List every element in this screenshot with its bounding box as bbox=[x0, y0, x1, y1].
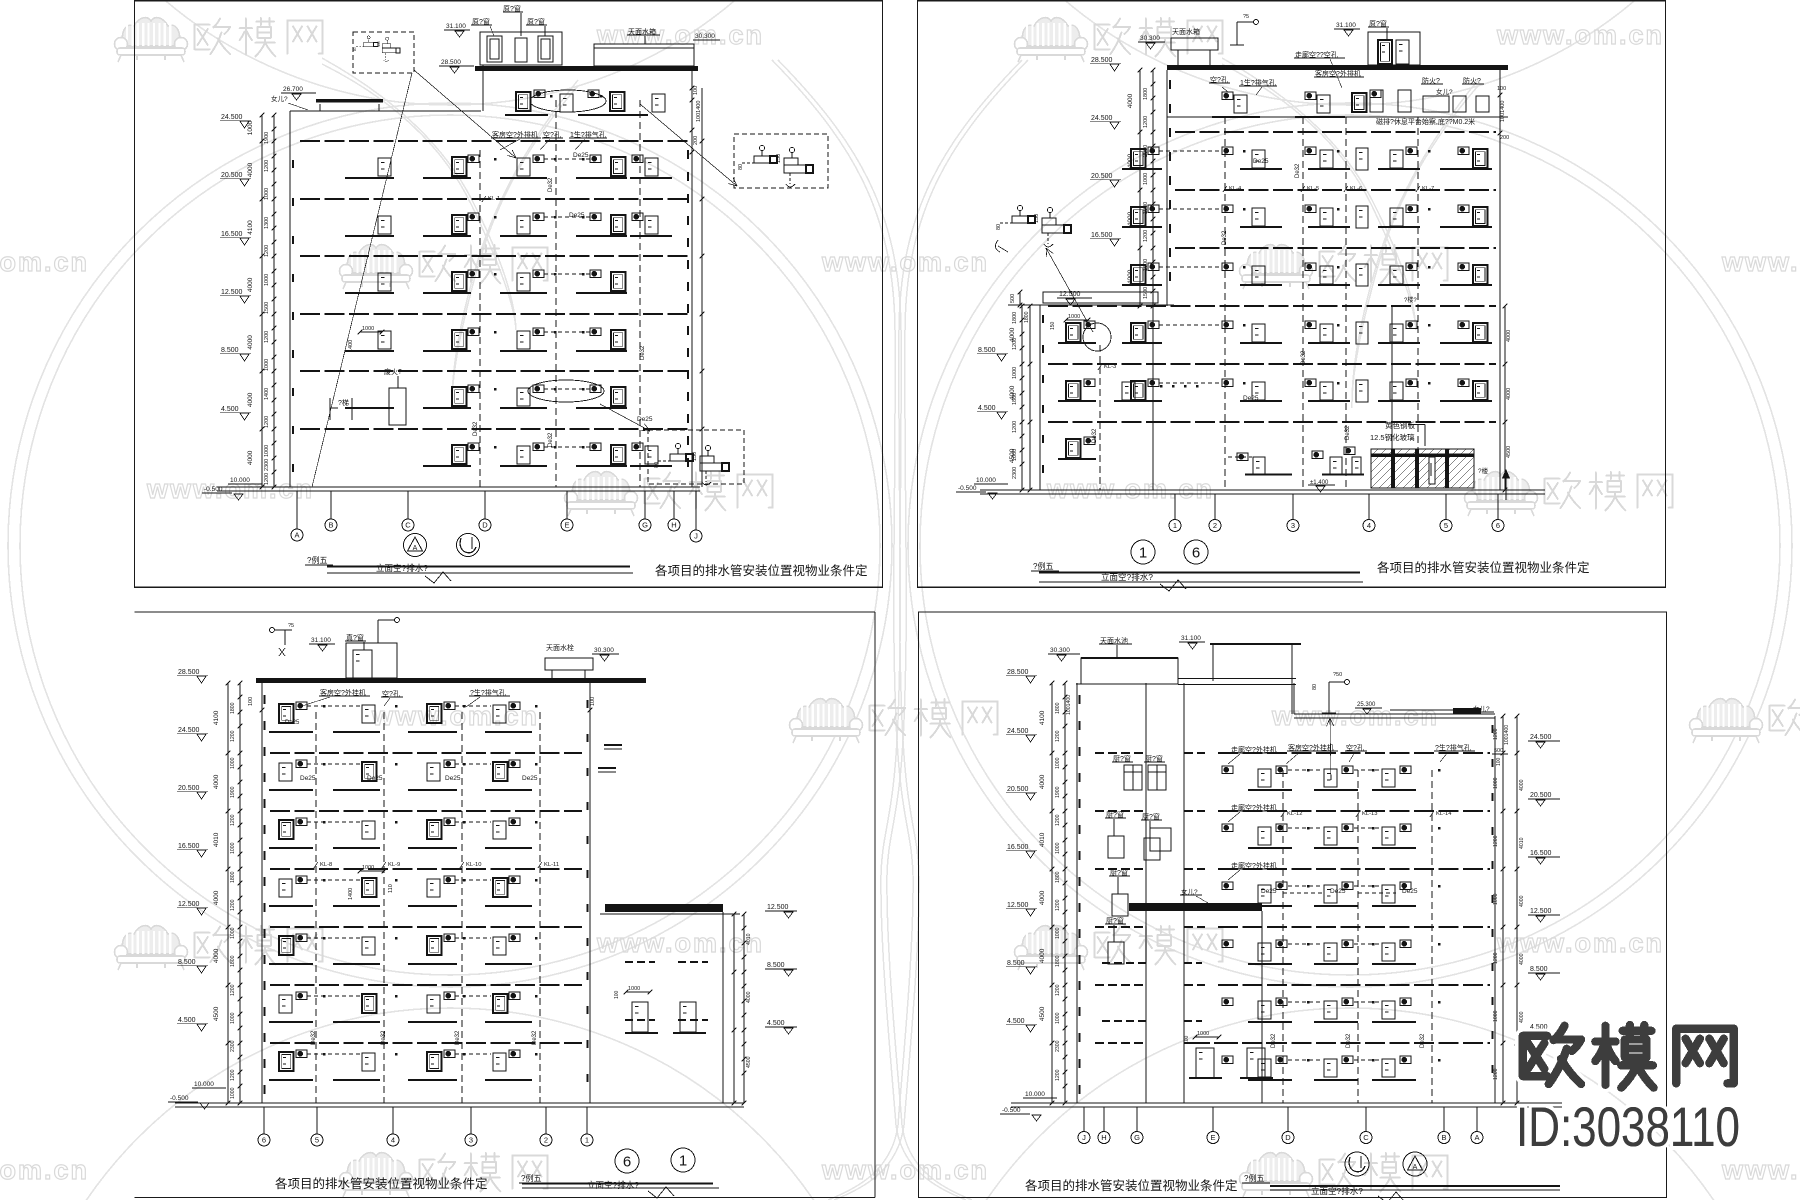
svg-text:B: B bbox=[328, 521, 333, 530]
svg-text:4000: 4000 bbox=[247, 450, 254, 465]
panel 4 unit row 1 bbox=[1248, 789, 1292, 791]
svg-text:6: 6 bbox=[1496, 521, 1500, 530]
svg-text:1800: 1800 bbox=[230, 871, 236, 883]
svg-text:4.500: 4.500 bbox=[178, 1017, 196, 1024]
svg-text:30.300: 30.300 bbox=[695, 33, 715, 40]
panel 2 grid bubbles bbox=[1174, 494, 1176, 520]
svg-text:1200: 1200 bbox=[1493, 952, 1499, 964]
panel 2 water tank bbox=[1171, 38, 1218, 50]
svg-text:8.500: 8.500 bbox=[178, 959, 196, 966]
svg-text:4000: 4000 bbox=[213, 948, 220, 963]
svg-text:De32: De32 bbox=[1301, 350, 1307, 365]
svg-text:1200: 1200 bbox=[264, 473, 270, 485]
panel 1 floor line 2 bbox=[300, 198, 688, 200]
svg-text:16.500: 16.500 bbox=[1530, 850, 1552, 857]
svg-text:12.500: 12.500 bbox=[178, 901, 200, 908]
svg-text:1800: 1800 bbox=[230, 955, 236, 967]
svg-text:De25: De25 bbox=[522, 775, 538, 782]
svg-text:www.om.cn: www.om.cn bbox=[1271, 701, 1439, 731]
svg-text:1000: 1000 bbox=[1055, 757, 1061, 769]
svg-text:100: 100 bbox=[1184, 1035, 1190, 1044]
svg-text:KL-5: KL-5 bbox=[1307, 186, 1319, 192]
panel 4 unit row 2 bbox=[1248, 847, 1292, 849]
panel 3 roof slab bbox=[256, 678, 646, 683]
svg-text:KL-6: KL-6 bbox=[1350, 186, 1362, 192]
svg-text:1000: 1000 bbox=[1068, 314, 1080, 320]
svg-text:1200: 1200 bbox=[230, 984, 236, 996]
panel 3 border bbox=[135, 611, 875, 613]
svg-text:4500: 4500 bbox=[746, 1056, 752, 1068]
svg-text:?例五: ?例五 bbox=[1244, 1173, 1264, 1183]
svg-text:150: 150 bbox=[1034, 214, 1040, 223]
panel 4 unit row 5 bbox=[1248, 1021, 1292, 1023]
panel 3 floor line 1 bbox=[270, 752, 582, 754]
watermark top partial circles bbox=[10, 0, 890, 105]
svg-text:De25: De25 bbox=[1261, 888, 1277, 895]
svg-text:1200: 1200 bbox=[1055, 730, 1061, 742]
svg-text:www.om.cn: www.om.cn bbox=[0, 247, 89, 277]
svg-text:4000: 4000 bbox=[247, 392, 254, 407]
svg-text:1: 1 bbox=[1139, 545, 1147, 562]
svg-text:1900: 1900 bbox=[264, 132, 270, 144]
svg-text:100: 100 bbox=[590, 697, 596, 706]
svg-text:6: 6 bbox=[623, 1154, 631, 1171]
svg-text:De32: De32 bbox=[548, 432, 554, 447]
svg-text:24.500: 24.500 bbox=[1530, 734, 1552, 741]
panel 2 roof objects row bbox=[1370, 90, 1383, 112]
svg-text:立面空?排水?: 立面空?排水? bbox=[376, 563, 428, 573]
panel 4 parapet vent pipe bbox=[1328, 682, 1330, 713]
svg-text:6: 6 bbox=[262, 1136, 266, 1145]
svg-text:1200: 1200 bbox=[264, 245, 270, 257]
svg-text:A: A bbox=[413, 545, 418, 552]
svg-text:1000: 1000 bbox=[230, 757, 236, 769]
svg-text:1: 1 bbox=[679, 1153, 687, 1170]
svg-text:4000: 4000 bbox=[1519, 779, 1525, 791]
svg-text:1000: 1000 bbox=[628, 986, 640, 992]
svg-text:D: D bbox=[1285, 1133, 1291, 1142]
svg-text:1000: 1000 bbox=[230, 927, 236, 939]
svg-text:1800: 1800 bbox=[1055, 955, 1061, 967]
panel 2 unit row 5 bbox=[1122, 400, 1162, 402]
svg-text:A: A bbox=[1413, 1164, 1418, 1171]
panel 2 floor line 2 bbox=[1175, 189, 1496, 191]
svg-text:De25: De25 bbox=[1402, 888, 1418, 895]
svg-text:De32: De32 bbox=[1346, 1033, 1352, 1048]
svg-text:?50: ?50 bbox=[1333, 672, 1342, 678]
watermark center vertical ribbon curves bbox=[772, 60, 913, 1200]
svg-text:1000: 1000 bbox=[362, 865, 374, 871]
svg-text:De25: De25 bbox=[300, 775, 316, 782]
svg-text:De25: De25 bbox=[1243, 395, 1259, 402]
panel 4 KL labels and pipes bbox=[1282, 770, 1284, 1103]
panel 4 left tower water tank bbox=[1081, 658, 1178, 684]
svg-text:1400: 1400 bbox=[348, 888, 354, 900]
svg-text:31.100: 31.100 bbox=[311, 637, 331, 644]
svg-text:4100: 4100 bbox=[213, 710, 220, 725]
svg-text:?5: ?5 bbox=[1243, 14, 1249, 20]
svg-text:黄色钢板: 黄色钢板 bbox=[1385, 420, 1415, 430]
svg-text:1: 1 bbox=[1173, 521, 1177, 530]
panel 2 fixture group left bbox=[996, 205, 1071, 247]
svg-text:4000: 4000 bbox=[247, 162, 254, 177]
svg-text:1000: 1000 bbox=[264, 445, 270, 457]
svg-text:?例五: ?例五 bbox=[1033, 561, 1053, 571]
panel 2 floor line 1 bbox=[1175, 131, 1496, 133]
panel 4 building walls bbox=[1076, 683, 1078, 1103]
panel 2 border bbox=[918, 1, 1666, 588]
svg-text:24.500: 24.500 bbox=[1007, 728, 1029, 735]
svg-text:1001400: 1001400 bbox=[1066, 695, 1072, 715]
panel 3 annex right dim chain bbox=[733, 914, 735, 1103]
panel 2 annex roof bbox=[1043, 292, 1158, 303]
svg-text:KL-8: KL-8 bbox=[320, 862, 332, 868]
panel 1 floor line 6 bbox=[300, 428, 688, 430]
panel 1 unit row 4 bbox=[345, 350, 394, 352]
panel 3 wall hatch dashes bbox=[264, 695, 266, 704]
svg-text:12.500: 12.500 bbox=[1007, 902, 1029, 909]
panel 2 unit row 2 bbox=[1122, 226, 1162, 228]
svg-text:4010: 4010 bbox=[1519, 837, 1525, 849]
svg-text:1200: 1200 bbox=[264, 160, 270, 172]
svg-text:8.500: 8.500 bbox=[1007, 960, 1025, 967]
watermark big circle left (double ring) bbox=[8, 103, 892, 987]
panel 2 upper dimension chain bbox=[1139, 70, 1141, 306]
svg-text:24.500: 24.500 bbox=[221, 114, 243, 121]
svg-text:4000: 4000 bbox=[247, 277, 254, 292]
svg-text:De32: De32 bbox=[1345, 425, 1351, 440]
svg-text:J: J bbox=[1082, 1133, 1086, 1142]
svg-text:4: 4 bbox=[1367, 521, 1371, 530]
svg-text:www.om.cn: www.om.cn bbox=[0, 1155, 89, 1185]
svg-text:500: 500 bbox=[1010, 294, 1016, 303]
svg-text:立面空?排水?: 立面空?排水? bbox=[1311, 1186, 1363, 1196]
svg-text:4100: 4100 bbox=[1039, 710, 1046, 725]
panel 2 floor line 5 bbox=[1048, 363, 1496, 365]
panel 1 right dim line bbox=[701, 88, 703, 487]
svg-text:De32: De32 bbox=[1271, 1033, 1277, 1048]
svg-text:150: 150 bbox=[776, 154, 782, 163]
svg-text:立面空?排水?: 立面空?排水? bbox=[587, 1180, 639, 1190]
svg-text:200: 200 bbox=[1500, 135, 1509, 141]
svg-text:30.300: 30.300 bbox=[594, 647, 614, 654]
panel 1 roof slab bbox=[475, 66, 698, 71]
svg-text:26.700: 26.700 bbox=[283, 86, 303, 93]
panel 2 annex unit rows bbox=[1058, 342, 1096, 344]
watermark sofa+text+url instances (diagonal grid) bbox=[115, 18, 188, 62]
svg-text:5: 5 bbox=[1444, 521, 1448, 530]
svg-text:De32: De32 bbox=[1420, 1033, 1426, 1048]
svg-text:D: D bbox=[482, 521, 488, 530]
panel 3 right annex bbox=[605, 904, 723, 912]
panel 4 unit row 6 bbox=[1248, 1079, 1292, 1081]
panel 3 ground line bbox=[175, 1102, 744, 1104]
svg-text:200: 200 bbox=[693, 136, 699, 145]
svg-text:De25: De25 bbox=[637, 416, 653, 423]
svg-text:www.om.cn: www.om.cn bbox=[1721, 247, 1800, 277]
svg-text:4000: 4000 bbox=[1506, 330, 1512, 342]
panel 1 detail box top-left bbox=[353, 32, 414, 73]
panel 1 unit row 6 bbox=[423, 465, 471, 467]
panel 2 penthouse bbox=[1368, 32, 1420, 65]
panel 1 penthouse bbox=[480, 32, 562, 65]
svg-text:1200: 1200 bbox=[1055, 814, 1061, 826]
svg-text:KL-9: KL-9 bbox=[388, 862, 400, 868]
svg-text:4.500: 4.500 bbox=[1007, 1018, 1025, 1025]
svg-text:2300: 2300 bbox=[230, 1040, 236, 1052]
site logo text white halo bbox=[1523, 1026, 1581, 1084]
svg-text:www.om.cn: www.om.cn bbox=[821, 1155, 989, 1185]
svg-text:20.500: 20.500 bbox=[1530, 792, 1552, 799]
panel 2 floor line 3 bbox=[1175, 247, 1496, 249]
svg-text:De25: De25 bbox=[573, 152, 589, 159]
svg-text:De25: De25 bbox=[1330, 888, 1346, 895]
svg-text:10.000: 10.000 bbox=[194, 1081, 214, 1088]
svg-text:80: 80 bbox=[738, 164, 744, 170]
svg-text:各项目的排水管安装位置视物业条件定: 各项目的排水管安装位置视物业条件定 bbox=[655, 563, 868, 578]
panel 4 floor line 4 bbox=[1218, 926, 1490, 928]
svg-text:100: 100 bbox=[1496, 757, 1502, 766]
svg-text:16.500: 16.500 bbox=[1091, 232, 1113, 239]
svg-text:B: B bbox=[1441, 1133, 1446, 1142]
panel 1 unit row 5 bbox=[345, 407, 394, 409]
svg-text:1200: 1200 bbox=[1055, 1069, 1061, 1081]
svg-text:1000: 1000 bbox=[1012, 367, 1018, 379]
svg-text:4000: 4000 bbox=[746, 991, 752, 1003]
svg-text:28.500: 28.500 bbox=[1091, 57, 1113, 64]
svg-text:磁排?休息平台始察,底??M0.2米: 磁排?休息平台始察,底??M0.2米 bbox=[1376, 117, 1475, 126]
svg-text:10.000: 10.000 bbox=[230, 477, 250, 484]
panel 2 wall hatch dashes bbox=[1169, 80, 1171, 89]
panel 3 floor line 2 bbox=[270, 810, 582, 812]
panel 4 wall hatch dashes bbox=[1079, 695, 1081, 704]
svg-text:1200: 1200 bbox=[264, 331, 270, 343]
svg-text:4: 4 bbox=[391, 1136, 395, 1145]
svg-text:1200: 1200 bbox=[230, 814, 236, 826]
svg-text:女儿?: 女儿? bbox=[271, 94, 288, 103]
svg-text:1500: 1500 bbox=[264, 302, 270, 314]
svg-text:8.500: 8.500 bbox=[978, 347, 996, 354]
panel 1 big reference bubbles bbox=[404, 534, 427, 557]
svg-text:?梯: ?梯 bbox=[338, 398, 349, 407]
panel 3 unit row 7 bbox=[269, 1079, 313, 1081]
svg-text:2: 2 bbox=[544, 1136, 548, 1145]
panel 1 floor line 3 bbox=[300, 255, 688, 257]
svg-text:?楼?: ?楼? bbox=[1404, 296, 1417, 304]
svg-text:4.500: 4.500 bbox=[221, 406, 239, 413]
panel 1 roof unit row with ellipse callout bbox=[530, 90, 606, 112]
svg-text:8.500: 8.500 bbox=[1530, 966, 1548, 973]
svg-text:1000: 1000 bbox=[1055, 927, 1061, 939]
svg-text:4000: 4000 bbox=[1039, 948, 1046, 963]
svg-text:www.om.cn: www.om.cn bbox=[821, 247, 989, 277]
svg-text:1200: 1200 bbox=[1493, 728, 1499, 740]
svg-text:立面空?排水?: 立面空?排水? bbox=[1101, 572, 1153, 582]
svg-text:De32: De32 bbox=[1222, 230, 1228, 245]
svg-text:10.000: 10.000 bbox=[1025, 1091, 1045, 1098]
panel 3 penthouse bbox=[346, 643, 397, 678]
svg-text:1400: 1400 bbox=[264, 388, 270, 400]
panel 3 floor line 3 bbox=[270, 868, 582, 870]
panel 3 unit row 5 bbox=[269, 963, 313, 965]
svg-text:1001400: 1001400 bbox=[1500, 101, 1506, 122]
panel 3 floor line 4 bbox=[270, 926, 582, 928]
svg-text:1000: 1000 bbox=[264, 274, 270, 286]
panel 2 annex callout circle bbox=[1083, 323, 1111, 351]
panel 1 building outline bbox=[289, 111, 291, 487]
svg-text:150: 150 bbox=[692, 452, 698, 461]
panel 4 raised parapet bbox=[1210, 643, 1301, 645]
svg-text:废火?: 废火? bbox=[384, 367, 402, 376]
panel 1 wall hatch dashes right wall bbox=[687, 150, 689, 159]
svg-text:A: A bbox=[294, 531, 299, 540]
svg-text:4000: 4000 bbox=[1039, 890, 1046, 905]
svg-text:?5: ?5 bbox=[288, 623, 294, 629]
panel 4 middle block units bbox=[1190, 1042, 1225, 1044]
panel 1 vertical pipe lines bbox=[479, 150, 481, 487]
svg-text:1800: 1800 bbox=[230, 702, 236, 714]
svg-text:KL-1: KL-1 bbox=[488, 196, 500, 202]
svg-text:4000: 4000 bbox=[247, 335, 254, 350]
svg-text:De25: De25 bbox=[445, 775, 461, 782]
svg-text:4000: 4000 bbox=[1519, 953, 1525, 965]
panel 3 water tank bbox=[545, 658, 593, 670]
panel 3 unit row 6 bbox=[269, 1021, 313, 1023]
svg-text:1000: 1000 bbox=[247, 120, 254, 135]
svg-text:De32: De32 bbox=[640, 345, 646, 360]
panel 4 floor line 5 bbox=[1218, 984, 1490, 986]
panel 1 border bbox=[135, 1, 883, 588]
svg-text:4000: 4000 bbox=[1039, 774, 1046, 789]
svg-text:天面水栓: 天面水栓 bbox=[546, 643, 574, 652]
svg-text:2300: 2300 bbox=[264, 459, 270, 471]
panel 3 unit row 2 bbox=[269, 789, 313, 791]
panel 3 unit row 3 bbox=[269, 847, 313, 849]
panel 4 dimension chain bbox=[1051, 683, 1053, 1103]
svg-text:4010: 4010 bbox=[1039, 832, 1046, 847]
svg-text:www.om.cn: www.om.cn bbox=[596, 20, 764, 50]
svg-text:150: 150 bbox=[1050, 321, 1056, 330]
panel 4 left block mezzanine dashes bbox=[1102, 962, 1146, 964]
watermark diagonal arcs top-right bbox=[1222, 58, 1416, 330]
svg-text:1001400: 1001400 bbox=[696, 101, 702, 122]
svg-text:110: 110 bbox=[388, 884, 394, 893]
svg-text:1000: 1000 bbox=[1055, 842, 1061, 854]
svg-text:De32: De32 bbox=[1295, 163, 1301, 178]
svg-text:20.500: 20.500 bbox=[1007, 786, 1029, 793]
panel 2 big reference bubbles bbox=[1131, 540, 1155, 564]
svg-text:A: A bbox=[1474, 1133, 1479, 1142]
panel 2 annex inner wall bbox=[1152, 306, 1154, 490]
svg-text:12.500: 12.500 bbox=[767, 904, 789, 911]
svg-text:4000: 4000 bbox=[1506, 388, 1512, 400]
svg-text:1300: 1300 bbox=[264, 217, 270, 229]
svg-text:4000: 4000 bbox=[1519, 1011, 1525, 1023]
svg-text:天面水箱: 天面水箱 bbox=[1172, 27, 1200, 36]
panel 3 floor line 6 bbox=[270, 1042, 582, 1044]
svg-text:1000: 1000 bbox=[1493, 777, 1499, 789]
svg-text:4500: 4500 bbox=[213, 1006, 220, 1021]
panel 4 left block windows bbox=[1095, 752, 1146, 754]
svg-text:1000: 1000 bbox=[230, 1012, 236, 1024]
panel 2 roof slab bbox=[1167, 65, 1508, 70]
svg-text:4000: 4000 bbox=[1127, 93, 1134, 108]
svg-text:G: G bbox=[1134, 1133, 1140, 1142]
svg-text:1800: 1800 bbox=[1024, 311, 1030, 323]
svg-text:20.500: 20.500 bbox=[1091, 173, 1113, 180]
panel 1 ground line bbox=[217, 486, 700, 488]
panel 3 roof vent pipes bbox=[377, 620, 379, 643]
svg-text:www.om.cn: www.om.cn bbox=[1496, 20, 1664, 50]
svg-text:1000: 1000 bbox=[1493, 893, 1499, 905]
panel 2 storefront bbox=[1371, 449, 1474, 488]
watermark diagonal arcs top-left bbox=[322, 58, 516, 330]
svg-text:100: 100 bbox=[1497, 86, 1506, 92]
panel 1 roof water tank bbox=[594, 44, 694, 66]
svg-text:De32: De32 bbox=[381, 1030, 387, 1045]
svg-text:De32: De32 bbox=[1092, 428, 1098, 443]
svg-text:E: E bbox=[1210, 1133, 1215, 1142]
svg-text:C: C bbox=[405, 521, 411, 530]
panel 2 dots row bbox=[1160, 385, 1163, 388]
svg-text:1200: 1200 bbox=[230, 1069, 236, 1081]
panel 4 big reference bubbles bbox=[1345, 1152, 1369, 1176]
panel 4 floor line 6 bbox=[1218, 1042, 1490, 1044]
panel 2 unit row 4 bbox=[1122, 342, 1162, 344]
svg-text:1000: 1000 bbox=[230, 1087, 236, 1099]
svg-text:80: 80 bbox=[654, 462, 660, 468]
svg-text:KL-14: KL-14 bbox=[1436, 811, 1452, 817]
svg-text:24.500: 24.500 bbox=[1091, 115, 1113, 122]
svg-text:1900: 1900 bbox=[1055, 786, 1061, 798]
svg-text:1000: 1000 bbox=[264, 359, 270, 371]
watermark big circle right (double ring) bbox=[908, 103, 1792, 987]
svg-text:www.om.cn: www.om.cn bbox=[596, 928, 764, 958]
svg-text:100: 100 bbox=[693, 86, 699, 95]
panel 2 annex pipe bbox=[1099, 345, 1101, 490]
svg-text:80: 80 bbox=[353, 47, 357, 51]
svg-text:6: 6 bbox=[1192, 545, 1200, 562]
panel 1 dimension chain inner bbox=[273, 115, 275, 487]
svg-text:80: 80 bbox=[996, 224, 1002, 230]
svg-text:1200: 1200 bbox=[1055, 984, 1061, 996]
panel 4 middle block roof bbox=[1129, 903, 1262, 911]
panel 4 border bbox=[919, 612, 1667, 1198]
svg-text:5: 5 bbox=[315, 1136, 319, 1145]
svg-text:100: 100 bbox=[614, 990, 620, 999]
panel 3 building walls bbox=[261, 683, 263, 1103]
panel 2 KL labels and pipes bbox=[1224, 117, 1226, 490]
svg-text:KL-7: KL-7 bbox=[1422, 186, 1434, 192]
panel 1 unit row 2 bbox=[345, 235, 394, 237]
svg-text:-0.500: -0.500 bbox=[958, 485, 977, 492]
svg-text:1500: 1500 bbox=[1143, 287, 1149, 299]
svg-text:1900: 1900 bbox=[230, 786, 236, 798]
svg-text:1000: 1000 bbox=[1143, 173, 1149, 185]
svg-text:2: 2 bbox=[1213, 521, 1217, 530]
svg-text:12.5钢化玻璃: 12.5钢化玻璃 bbox=[1370, 432, 1415, 442]
svg-text:150: 150 bbox=[377, 41, 381, 47]
svg-text:4000: 4000 bbox=[213, 774, 220, 789]
panel 4 unit row 4 bbox=[1248, 963, 1292, 965]
svg-text:KL-4: KL-4 bbox=[1229, 186, 1242, 192]
svg-text:1000: 1000 bbox=[264, 188, 270, 200]
svg-text:1200: 1200 bbox=[1012, 338, 1018, 350]
panel 2 unit row 1 bbox=[1122, 168, 1162, 170]
svg-text:1800: 1800 bbox=[1055, 702, 1061, 714]
svg-text:1200: 1200 bbox=[1143, 230, 1149, 242]
panel 4 floor line 1 bbox=[1218, 752, 1490, 754]
